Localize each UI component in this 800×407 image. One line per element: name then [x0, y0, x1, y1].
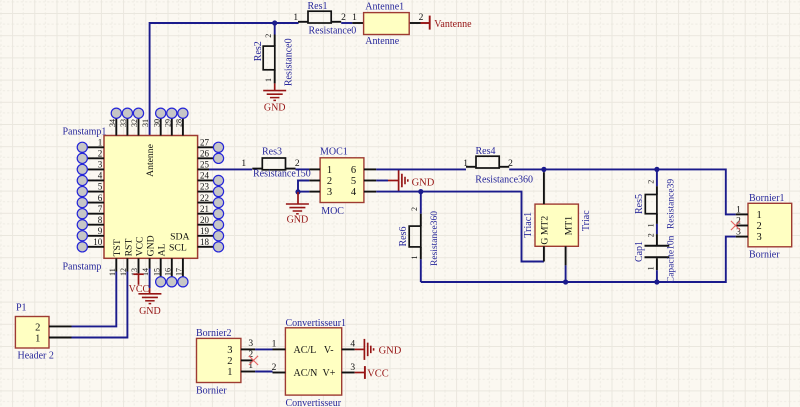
svg-text:VCC: VCC — [134, 236, 145, 256]
svg-text:20: 20 — [200, 215, 210, 225]
MOC1 left pins 1-3 — [309, 168, 320, 170]
svg-text:24: 24 — [200, 171, 210, 181]
svg-text:3: 3 — [350, 363, 355, 373]
junction at Triac MT2 column — [541, 167, 546, 172]
power port VCC at IC pin13 — [133, 273, 143, 275]
svg-text:9: 9 — [98, 226, 103, 236]
svg-text:Capacite10n: Capacite10n — [667, 235, 677, 283]
svg-text:2: 2 — [227, 356, 232, 367]
Triac1 pin G (bottom left) — [543, 246, 545, 261]
svg-text:TST: TST — [112, 239, 123, 256]
svg-text:28: 28 — [175, 119, 184, 127]
U1 top pins 34-28 with no-connect circles (pin 31 wired) — [115, 118, 117, 136]
Bornier1 pins 1-3 — [736, 213, 748, 215]
svg-text:Resistance0: Resistance0 — [284, 38, 295, 86]
resistor Res5 (vertical) — [656, 169, 658, 186]
svg-text:4: 4 — [351, 187, 357, 198]
wire: bottom net rail Res6 to Bornier1 pin3 — [421, 237, 736, 282]
Triac1 pin MT1 (bottom right) — [565, 246, 567, 265]
wire: MOC1 pin4 to Res6 and Triac gate — [376, 192, 544, 262]
svg-text:RST: RST — [123, 239, 134, 257]
capacitor Cap1 (vertical) — [656, 234, 658, 245]
ground GND at IC pin14 — [149, 269, 151, 289]
power ground GND at Convertisseur1 pin4 — [355, 348, 364, 350]
svg-text:31: 31 — [141, 119, 150, 127]
wire: net from IC pin 31 up and right to Res1/Res2 junction — [150, 23, 299, 136]
svg-text:3: 3 — [227, 345, 232, 356]
svg-text:P1: P1 — [16, 303, 27, 314]
svg-text:MT1: MT1 — [564, 216, 575, 236]
resistor Res4 — [466, 166, 476, 168]
svg-text:2: 2 — [264, 34, 273, 38]
Triac1 pin MT2 (top) — [543, 172, 545, 204]
connector P1 body — [15, 317, 49, 349]
no-ERC cross on Bornier2 pin2 — [249, 356, 258, 365]
svg-text:1: 1 — [264, 78, 273, 82]
svg-text:Convertisseur1: Convertisseur1 — [286, 318, 347, 329]
svg-text:1: 1 — [327, 165, 332, 176]
svg-text:Triac: Triac — [581, 210, 592, 231]
svg-text:Bornier2: Bornier2 — [196, 328, 232, 339]
wire: Bornier2 pin3 to Convertisseur1 pin1 — [255, 348, 272, 350]
svg-text:2: 2 — [419, 13, 424, 23]
MOC1 right pins 6-4 — [364, 168, 376, 170]
ground GND below MOC1 pins 2/3 — [297, 192, 299, 204]
wire: Res3 pin2 to MOC1 pin1 — [296, 168, 310, 170]
svg-text:1: 1 — [736, 205, 741, 215]
svg-text:2: 2 — [736, 217, 741, 227]
resistor Res1 — [298, 21, 308, 23]
wire: MOC1 pin2 to ground junction — [298, 181, 309, 193]
svg-text:1: 1 — [352, 13, 357, 23]
wire: Res4 pin2 across to Bornier1 pin1 — [509, 169, 736, 214]
svg-text:18: 18 — [200, 237, 210, 247]
power port VCC at Convertisseur1 pin3 — [355, 372, 364, 374]
svg-text:GND: GND — [139, 306, 161, 317]
svg-text:Resistance39: Resistance39 — [667, 179, 677, 229]
svg-text:1: 1 — [35, 334, 40, 345]
Convertisseur1 right pins 4,3 — [342, 348, 355, 350]
P1 pins 2 and 1 — [49, 325, 72, 327]
svg-text:2: 2 — [98, 149, 103, 159]
svg-text:Vantenne: Vantenne — [434, 19, 472, 30]
svg-text:VCC: VCC — [367, 368, 389, 379]
svg-text:Antenne: Antenne — [365, 36, 399, 47]
svg-text:V+: V+ — [323, 368, 336, 379]
svg-text:6: 6 — [351, 165, 356, 176]
svg-text:1: 1 — [757, 210, 762, 221]
svg-text:8: 8 — [98, 215, 103, 225]
svg-text:AC/N: AC/N — [294, 368, 318, 379]
svg-text:30: 30 — [152, 119, 161, 127]
svg-text:2: 2 — [646, 180, 655, 184]
svg-text:Antenne1: Antenne1 — [365, 2, 404, 13]
svg-text:Res5: Res5 — [634, 194, 645, 214]
svg-text:Cap1: Cap1 — [634, 241, 645, 262]
svg-text:1: 1 — [410, 256, 419, 260]
svg-text:2: 2 — [327, 176, 332, 187]
power port Vantenne (bar style) — [429, 16, 431, 30]
U1 right pins 27-18 (pin 25 wired to Res3) — [198, 146, 214, 148]
svg-text:33: 33 — [119, 119, 128, 127]
svg-text:3: 3 — [98, 160, 103, 170]
no-ERC cross on Bornier1 pin2 — [731, 221, 740, 230]
svg-text:Convertisseur: Convertisseur — [286, 398, 342, 407]
junction at Res5 column — [654, 167, 659, 172]
svg-text:1: 1 — [98, 138, 103, 148]
svg-text:Resistance0: Resistance0 — [309, 25, 357, 36]
svg-text:2: 2 — [341, 13, 346, 23]
svg-text:Res2: Res2 — [253, 41, 264, 61]
svg-text:Res3: Res3 — [262, 147, 282, 158]
svg-text:2: 2 — [757, 221, 762, 232]
converter Convertisseur1 body — [285, 328, 341, 395]
Convertisseur1 left pins 1,2 — [273, 348, 286, 350]
svg-text:Resistance360: Resistance360 — [430, 211, 440, 266]
svg-text:1: 1 — [646, 266, 655, 270]
svg-text:4: 4 — [98, 171, 103, 181]
svg-text:V-: V- — [324, 345, 334, 356]
svg-text:16: 16 — [163, 268, 172, 276]
svg-text:Header 2: Header 2 — [18, 351, 54, 362]
svg-text:MOC: MOC — [321, 206, 344, 217]
svg-text:SCL: SCL — [169, 243, 187, 254]
svg-text:15: 15 — [152, 268, 161, 276]
svg-text:7: 7 — [98, 204, 103, 214]
U1 left pins 1-10 with no-connect circles — [87, 146, 104, 148]
svg-text:25: 25 — [200, 160, 210, 170]
svg-text:GND: GND — [379, 345, 402, 356]
wire: MOC1 pin6 to Res4 pin1 — [376, 168, 466, 170]
svg-text:6: 6 — [98, 193, 103, 203]
svg-text:27: 27 — [200, 138, 210, 148]
connector Bornier1 body — [748, 203, 792, 247]
svg-text:AL: AL — [157, 243, 168, 256]
svg-text:21: 21 — [200, 204, 209, 214]
wire: P1 pin1 to IC pin12 — [72, 272, 128, 338]
svg-text:Res4: Res4 — [476, 146, 496, 157]
svg-text:1: 1 — [227, 367, 232, 378]
svg-text:GND: GND — [287, 215, 309, 226]
svg-text:Bornier: Bornier — [749, 249, 780, 260]
svg-text:GND: GND — [264, 102, 286, 113]
svg-text:Res1: Res1 — [308, 1, 328, 12]
svg-text:2: 2 — [295, 159, 300, 169]
svg-text:Triac1: Triac1 — [523, 212, 534, 238]
junction at Cap1 column — [654, 279, 659, 284]
svg-text:17: 17 — [175, 268, 184, 276]
svg-text:Panstamp1: Panstamp1 — [63, 126, 107, 137]
svg-text:2: 2 — [272, 363, 277, 373]
svg-text:1: 1 — [241, 159, 246, 169]
svg-text:34: 34 — [108, 119, 117, 127]
svg-text:SDA: SDA — [170, 231, 189, 242]
wire: Res1 pin2 to Antenne1 pin1 — [341, 22, 352, 24]
svg-text:G MT2: G MT2 — [540, 216, 551, 245]
wire: P1 pin2 to IC pin11 — [72, 272, 117, 327]
component U1 Panstamp1 body — [104, 136, 198, 259]
svg-text:2: 2 — [410, 207, 419, 211]
resistor Res3 — [252, 168, 262, 170]
svg-text:Bornier: Bornier — [196, 386, 227, 397]
svg-text:2: 2 — [646, 233, 655, 237]
svg-text:22: 22 — [200, 193, 209, 203]
svg-text:5: 5 — [351, 176, 356, 187]
wire: Res5 pin1 to Cap1 pin2 — [656, 224, 658, 234]
svg-text:26: 26 — [200, 149, 210, 159]
svg-text:Panstamp: Panstamp — [63, 261, 102, 272]
svg-text:Bornier1: Bornier1 — [749, 193, 785, 204]
wire: Bornier2 pin1 to Convertisseur1 pin2 — [255, 371, 272, 373]
ground GND below Res2 — [274, 83, 276, 90]
svg-text:5: 5 — [98, 182, 103, 192]
svg-text:MOC1: MOC1 — [320, 147, 348, 158]
wire: MOC1 pin3 to ground junction — [298, 191, 309, 193]
svg-text:Resistance360: Resistance360 — [475, 175, 533, 186]
svg-text:3: 3 — [248, 339, 253, 349]
junction at Triac MT1 column — [563, 279, 568, 284]
connector Bornier2 body — [197, 338, 241, 382]
resistor Res2 (vertical) — [274, 23, 276, 35]
junction at Res2 top — [272, 20, 277, 25]
svg-text:GND: GND — [412, 177, 435, 188]
Bornier2 pins 3,2,1 — [241, 348, 255, 350]
svg-text:AC/L: AC/L — [294, 345, 317, 356]
triac Triac1 body — [535, 204, 578, 246]
svg-text:Res6: Res6 — [398, 227, 409, 247]
svg-text:Antenne: Antenne — [145, 144, 156, 177]
svg-text:1: 1 — [646, 223, 655, 227]
svg-text:4: 4 — [350, 340, 355, 350]
svg-text:2: 2 — [35, 323, 40, 334]
wire: IC pin 25 to Res3 pin1 — [209, 168, 252, 170]
svg-text:32: 32 — [130, 119, 139, 127]
resistor Res6 (vertical) — [420, 192, 422, 214]
component Antenne1 body — [352, 22, 363, 24]
power ground GND at MOC1 pin5 — [376, 180, 388, 182]
svg-text:1: 1 — [272, 340, 277, 350]
svg-text:2: 2 — [508, 159, 513, 169]
junction at MOC ground — [295, 189, 300, 194]
svg-text:3: 3 — [757, 232, 762, 243]
svg-text:GND: GND — [146, 235, 157, 256]
svg-text:3: 3 — [327, 187, 332, 198]
component MOC1 body — [320, 158, 364, 203]
svg-text:23: 23 — [200, 182, 210, 192]
U1 bottom pins 11-17 — [115, 258, 117, 271]
junction at Res6 top — [418, 189, 423, 194]
svg-text:1: 1 — [293, 13, 298, 23]
svg-text:10: 10 — [93, 237, 103, 247]
svg-text:1: 1 — [463, 159, 468, 169]
svg-text:19: 19 — [200, 226, 210, 236]
svg-text:29: 29 — [163, 119, 172, 127]
